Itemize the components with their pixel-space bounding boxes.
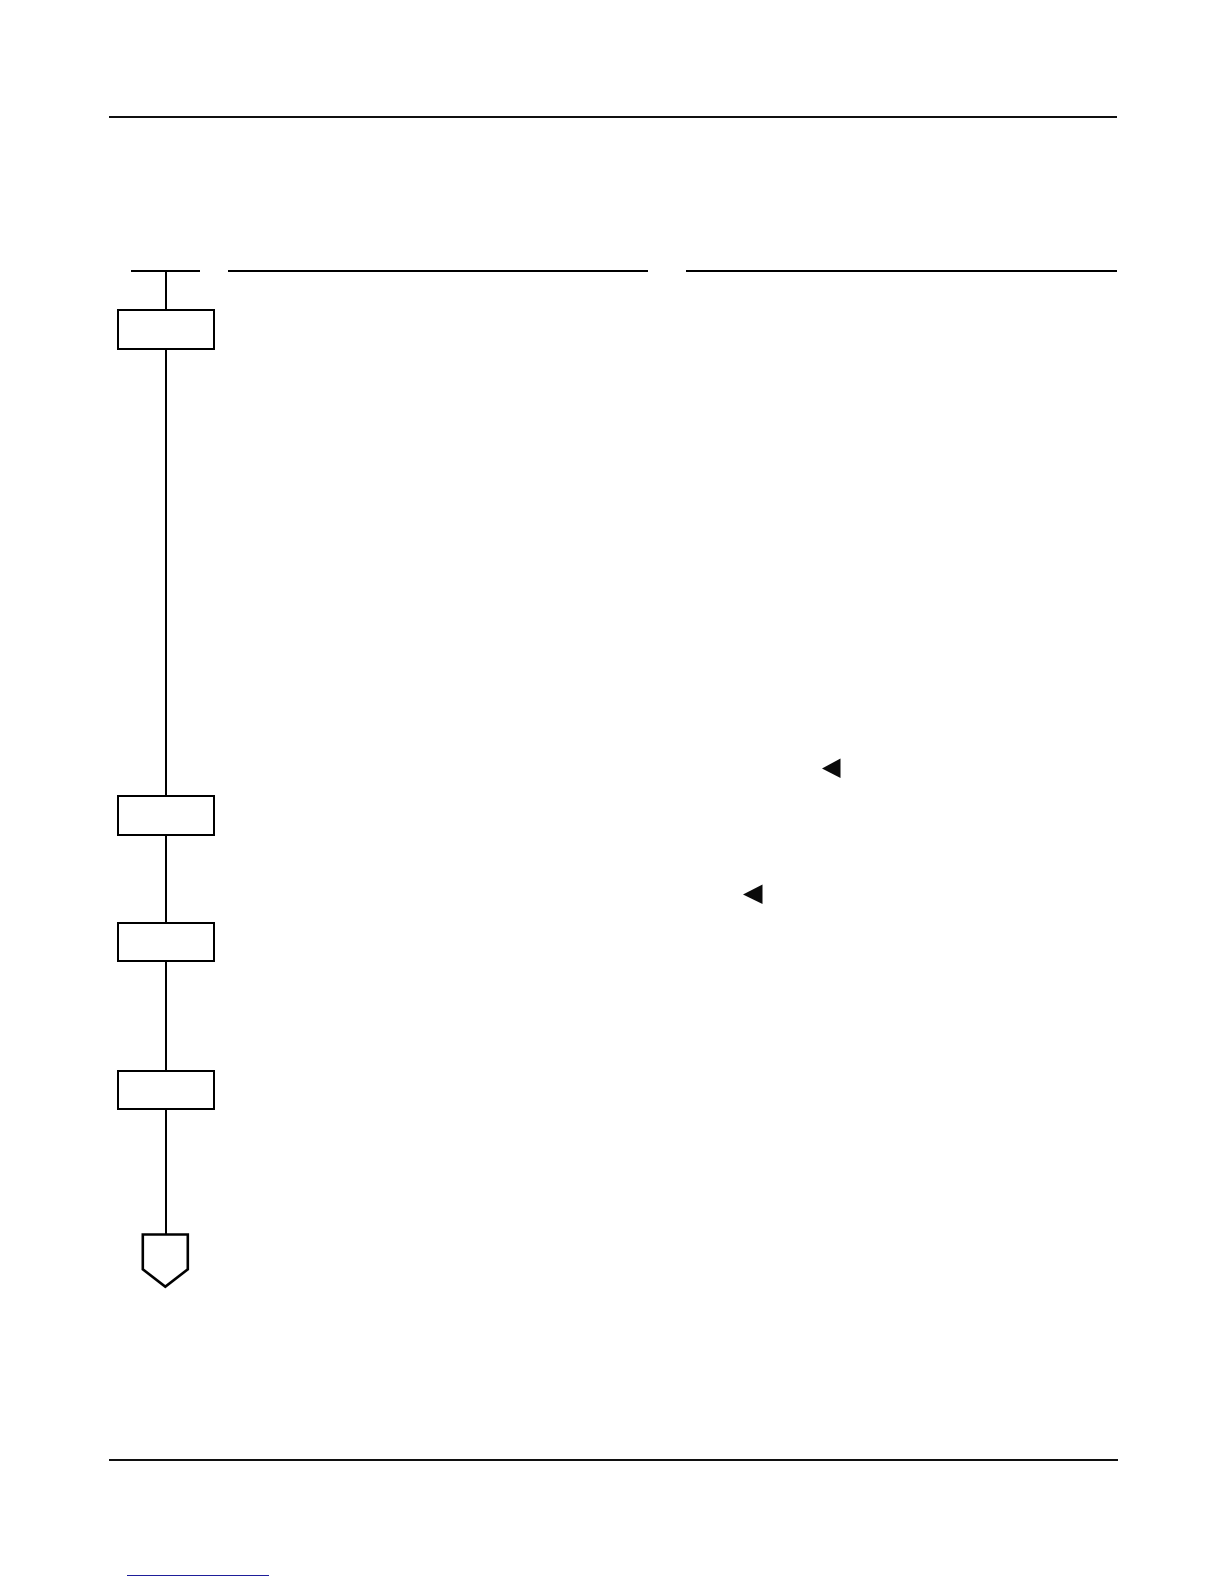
flowchart box 2 bbox=[117, 795, 215, 836]
column header line left (over flowchart column) bbox=[131, 270, 200, 272]
column header line middle bbox=[228, 270, 648, 272]
top header rule bbox=[109, 116, 1118, 118]
footnote separator blue underline bbox=[127, 1575, 269, 1577]
flowchart box 1 bbox=[117, 309, 215, 350]
bottom footer rule bbox=[109, 1459, 1118, 1461]
flowchart connector vertical line bbox=[165, 270, 168, 1235]
flowchart box 3 bbox=[117, 922, 215, 962]
flowchart box 4 bbox=[117, 1070, 215, 1110]
left-pointing marker triangle lower bbox=[743, 885, 763, 905]
left-pointing marker triangle upper bbox=[822, 759, 841, 779]
column header line right bbox=[686, 270, 1117, 272]
